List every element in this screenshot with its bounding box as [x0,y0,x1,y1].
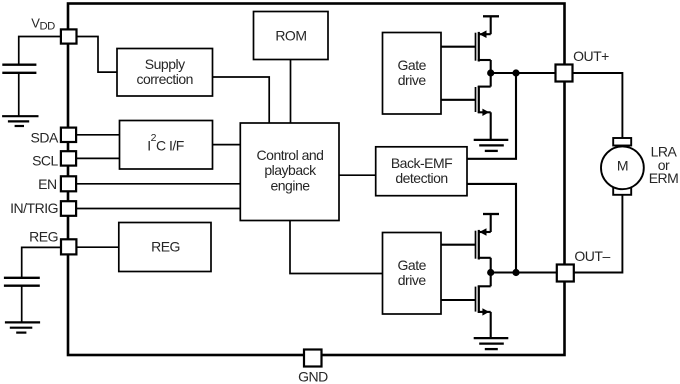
label GND [298,369,328,384]
wire ROM to control engine [290,60,292,124]
transistor Q4 (low-side, bottom half-bridge) [476,273,491,338]
capacitor C1 [2,65,36,116]
ground (C1) [2,116,38,126]
wire OUT+ to motor [573,73,623,138]
label LRA or ERM [649,144,679,186]
pin EN [61,176,76,191]
svg-text:M: M [617,158,628,174]
label IN/TRIG [10,200,58,216]
motor M1 (LRA/ERM actuator) [601,138,644,195]
wire OUT- to motor [574,195,623,273]
node junction OUT- sense [512,269,519,276]
svg-text:OUT–: OUT– [574,248,610,264]
transistor Q1 (high-side, top half-bridge) [476,16,500,73]
capacitor C2 [4,278,40,322]
wire IN/TRIG to control engine [76,208,241,210]
block: Control and playback engine [240,123,339,221]
wire gate drive 2 to Q4 gate [441,299,476,301]
svg-text:EN: EN [38,176,56,192]
svg-text:ROM: ROM [275,27,306,43]
wire EN to control engine [76,183,241,185]
label SCL [32,153,58,169]
wire gate drive 1 to Q1 gate [441,46,476,48]
node junction at Q3/Q4 drain [487,269,494,276]
wire supply correction to control engine [213,77,270,123]
block: ROM [254,12,329,60]
wire I2C to control engine [213,144,241,146]
ground (C2) [5,322,40,332]
node junction at Q1/Q2 drain [487,69,494,76]
ground (bottom half-bridge) [474,338,509,349]
block: REG [119,223,211,272]
wire OUT+ row [491,72,556,74]
wire SDA to I2C I/F [76,134,120,136]
svg-text:LRAorERM: LRAorERM [649,144,679,186]
svg-text:Back-EMFdetection: Back-EMFdetection [391,155,452,186]
pin SCL [61,151,76,165]
label OUT- [574,248,610,264]
svg-text:OUT+: OUT+ [573,48,609,64]
label REG [29,229,58,245]
wire gate drive 2 to Q3 gate [441,244,476,246]
transistor Q3 (high-side, bottom half-bridge) [476,214,500,273]
block: Supply correction [117,49,213,97]
wire REG to C2 [22,247,61,277]
svg-text:SCL: SCL [32,153,58,169]
block: Gate drive (bottom) [383,233,442,315]
wire REG pin to REG block [77,246,119,248]
svg-text:Supplycorrection: Supplycorrection [136,56,192,87]
svg-text:Gatedrive: Gatedrive [398,57,427,88]
svg-text:VDD: VDD [31,15,55,32]
transistor Q2 (low-side, top half-bridge) [476,73,491,140]
label OUT+ [573,48,609,64]
pin SDA [61,128,76,142]
svg-text:GND: GND [298,369,328,384]
IC boundary U1 [68,4,565,356]
pin OUT- [557,265,574,282]
svg-text:REG: REG [29,229,58,245]
wire back-EMF to OUT- node [467,184,516,273]
label EN [38,176,56,192]
block: Gate drive (top) [383,33,442,115]
block: I2C I/F [120,121,213,170]
svg-text:REG: REG [151,239,180,255]
pin VDD [61,29,77,43]
ground (top half-bridge) [474,140,509,151]
node junction OUT+ sense [512,69,519,76]
svg-text:IN/TRIG: IN/TRIG [10,200,58,216]
pin REG [61,239,76,254]
label SDA [31,130,59,146]
svg-text:Gatedrive: Gatedrive [398,257,427,288]
block: Back-EMF detection [376,147,467,196]
wire OUT- row [491,271,557,273]
label VDD [31,15,55,32]
pin IN/TRIG [61,201,76,216]
pin GND [304,350,322,367]
wire VDD to supply correction [76,37,117,73]
wire gate drive 1 to Q2 gate [441,99,476,101]
wire VDD to C1 [19,37,61,65]
wire control engine to back-EMF detection [339,174,376,176]
svg-text:SDA: SDA [31,130,59,146]
wire SCL to I2C I/F [76,157,120,159]
wire back-EMF to OUT+ node [467,73,516,159]
pin OUT+ [556,65,573,82]
wire control engine to gate drive 2 [290,221,383,274]
